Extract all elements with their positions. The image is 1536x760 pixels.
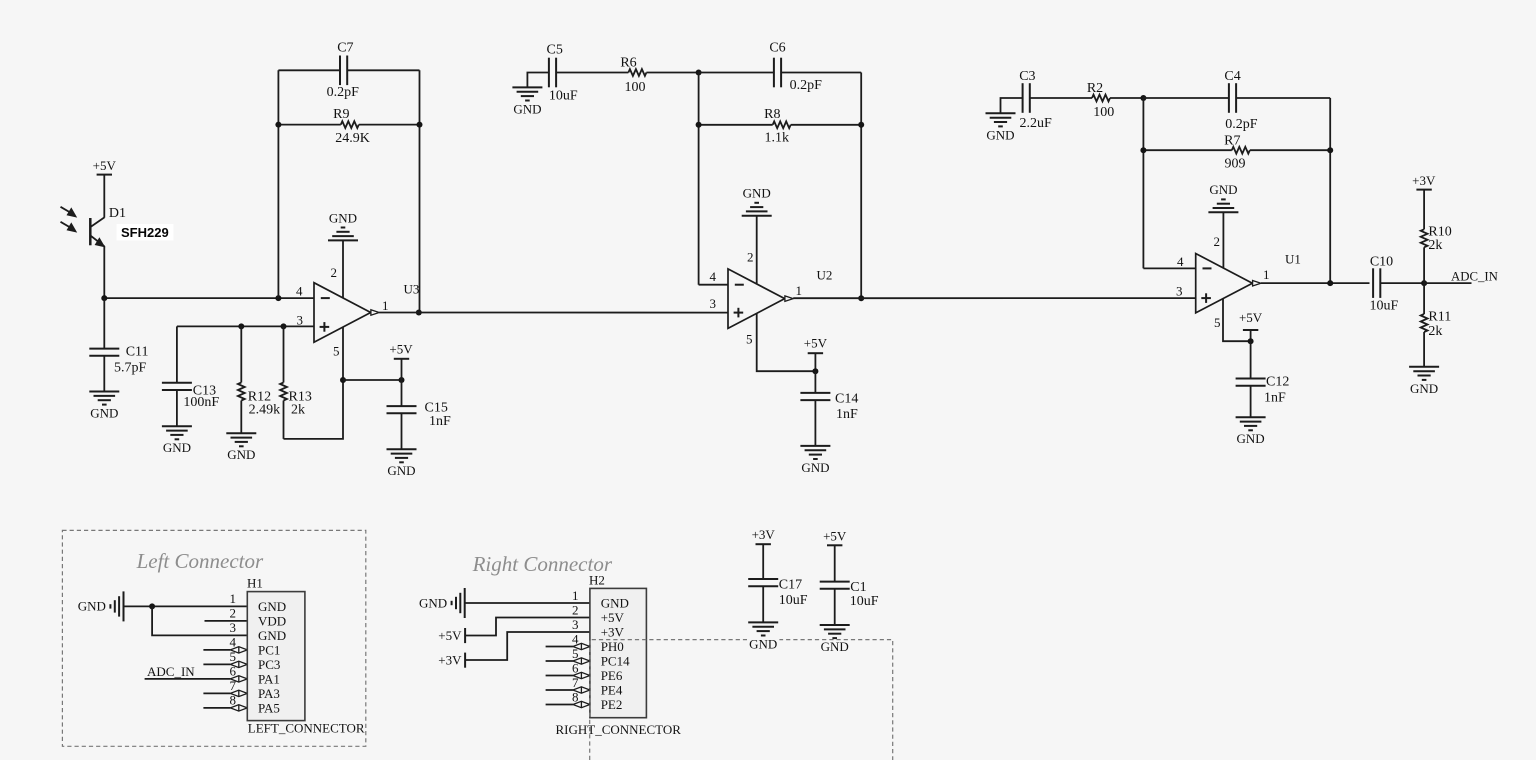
node dots on plus row [238,323,244,329]
svg-text:100: 100 [625,80,646,95]
wire pin8 [203,707,230,709]
ground above U2 pin2 [742,185,772,215]
pin6 arrow [573,672,590,679]
wire U1 output to C10 [1261,282,1370,284]
svg-text:GND: GND [601,596,629,611]
svg-text:1: 1 [230,591,237,606]
node dot C15 [399,377,405,383]
resistor R8 1.1k [699,107,862,145]
U1 pin 5 wire [1223,299,1251,342]
wire U2 output to U1 plus input [793,297,1195,299]
wire GND to pin1 [465,602,590,604]
ground below C11 [89,392,119,421]
wire C4 to right leg [1236,97,1330,99]
svg-text:1: 1 [1263,267,1270,282]
svg-text:3: 3 [572,617,579,632]
svg-text:1: 1 [382,298,389,313]
ground above U3 pin2 [328,210,358,240]
node dot R2/C4 [1140,95,1146,101]
node ADC_IN [1421,280,1427,286]
wire pin4 [203,649,230,651]
wire D1 node to U3 minus input [104,297,314,299]
svg-text:GND: GND [513,101,541,116]
+5V stub [438,628,465,643]
svg-text:10uF: 10uF [1370,299,1399,314]
svg-text:4: 4 [1177,254,1184,269]
svg-text:0.2pF: 0.2pF [790,78,823,93]
ground above U1 pin2 [1208,182,1238,212]
+5V supply for D1 [93,158,117,175]
U3 pin 5 wire [342,327,344,380]
resistor R7 909 [1143,133,1330,171]
wire left leg to minus input [699,284,728,286]
svg-text:8: 8 [230,693,237,708]
wire node to C4 [1143,97,1229,99]
wire pin2 VDD [205,620,248,622]
feedback top wire to C7 [278,69,340,71]
feedback left leg wire [277,70,279,298]
svg-text:VDD: VDD [258,613,286,628]
svg-text:+5V: +5V [438,628,462,643]
ground at C3 [986,113,1016,142]
svg-text:R6: R6 [620,55,636,70]
node dots R9 [275,122,281,128]
svg-text:PH0: PH0 [601,639,624,654]
capacitor C6 0.2pF [769,41,822,93]
wire R13 bottom to pin5 net [284,380,344,439]
svg-text:7: 7 [230,678,237,693]
svg-text:ADC_IN: ADC_IN [1451,270,1498,284]
svg-text:5: 5 [333,344,340,359]
svg-text:R2: R2 [1087,81,1103,96]
wire GND to pin2 [756,216,758,285]
wire +5V to D1 collector [103,175,105,218]
wire C5 to R6 [556,72,628,74]
svg-text:GND: GND [258,628,286,643]
+3V stub [438,652,465,667]
plus row wire C13 to U3 [177,325,314,327]
svg-text:PC3: PC3 [258,657,280,672]
svg-text:1: 1 [796,283,803,298]
op-amp U3 [314,283,379,343]
svg-text:PA3: PA3 [258,686,280,701]
H2 pin names [601,596,630,713]
wire +5V to pin2 [465,618,590,636]
pin8 arrow [230,705,247,712]
+3V supply at R10 [1412,173,1436,190]
wire pin6 [546,675,573,677]
node dot C14 [812,368,818,374]
capacitor C5 10uF [547,43,578,104]
wire GND to pin 2 [342,240,344,298]
ground below C1 [819,625,851,654]
capacitor C17 10uF [748,544,808,622]
svg-text:GND: GND [1410,381,1438,396]
wire left leg to minus input [1143,267,1195,269]
svg-text:PA5: PA5 [258,700,280,715]
wire C7 to right leg [347,69,419,71]
dashed box Left Connector [62,530,365,746]
resistor R2 100 [1087,81,1114,120]
node dot pin5 [340,377,346,383]
feedback left leg U2 [698,73,700,285]
wire GND to C3 [1001,98,1023,113]
+3V supply at C17 [752,527,776,544]
capacitor C11 [89,298,148,391]
svg-text:10uF: 10uF [779,593,808,608]
svg-text:GND: GND [329,210,357,225]
svg-text:4: 4 [230,635,237,650]
ground at H1 pin1 (rotated) [78,591,124,621]
svg-text:+5V: +5V [823,528,847,543]
svg-text:R7: R7 [1224,133,1240,148]
svg-text:PE4: PE4 [601,683,623,698]
wire pin4 [546,646,573,648]
node dot feedback/minus [275,295,281,301]
label SFH229 [117,224,174,241]
svg-text:2: 2 [230,606,237,621]
pin4 arrow [573,643,590,650]
dashed group box bottom-right [590,640,893,760]
capacitor C7 0.2pF [327,41,360,100]
svg-text:4: 4 [572,631,579,646]
ground below R12 [226,433,256,462]
resistor R10 2k [1421,190,1452,284]
svg-text:2k: 2k [1428,238,1442,253]
svg-text:100nF: 100nF [183,395,219,410]
svg-text:3: 3 [230,620,237,635]
svg-text:C4: C4 [1224,69,1240,84]
+5V supply at C1 [823,528,847,545]
wire GND to pin2 [1222,212,1224,268]
svg-text:D1: D1 [109,206,126,221]
wire pin5 [203,663,230,665]
svg-text:SFH229: SFH229 [121,225,169,240]
svg-text:GND: GND [1209,182,1237,197]
+5V supply at C15 [389,342,413,381]
svg-text:PE2: PE2 [601,697,623,712]
svg-text:C10: C10 [1370,255,1393,270]
svg-text:2.49k: 2.49k [249,403,281,418]
svg-text:C3: C3 [1019,69,1035,84]
svg-text:1.1k: 1.1k [764,130,789,145]
svg-text:R9: R9 [333,107,349,122]
feedback right leg U2 [860,73,862,299]
svg-text:10uF: 10uF [549,89,578,104]
wire pin7 [203,692,230,694]
svg-text:C14: C14 [835,391,858,406]
svg-text:2: 2 [747,249,754,264]
wire C10 to ADC node [1380,282,1424,284]
svg-text:Left Connector: Left Connector [136,549,264,573]
ground at H2 pin1 (rotated) [419,588,465,618]
svg-text:GND: GND [1237,431,1265,446]
H1 pin numbers [230,591,237,708]
svg-text:GND: GND [90,406,118,421]
op-amp U2 [728,269,793,329]
+5V supply at C12 [1239,310,1263,341]
svg-text:5: 5 [746,332,753,347]
wire pin7 [546,689,573,691]
svg-text:C17: C17 [779,578,802,593]
svg-text:RIGHT_CONNECTOR: RIGHT_CONNECTOR [556,722,682,737]
wire pin5 [546,660,573,662]
svg-text:R11: R11 [1428,309,1451,324]
node dot U1 output [1327,280,1333,286]
svg-text:10uF: 10uF [850,594,879,609]
svg-text:PC1: PC1 [258,642,280,657]
svg-text:5.7pF: 5.7pF [114,360,147,375]
node dot U3 output [416,310,422,316]
wire GND to C5 [527,73,549,88]
svg-text:U1: U1 [1285,252,1301,267]
capacitor C13 100nF [162,326,220,426]
svg-text:1nF: 1nF [1264,390,1286,405]
wire GND to pin1 [124,605,248,607]
capacitor C10 10uF [1370,255,1399,314]
ground below C13 [162,426,192,455]
svg-text:+5V: +5V [389,342,413,357]
pin5 arrow [230,661,247,668]
connector H2 body [590,588,647,717]
capacitor C1 10uF [820,545,879,625]
svg-text:100: 100 [1093,105,1114,120]
svg-text:2: 2 [572,602,579,617]
svg-text:0.2pF: 0.2pF [327,85,360,100]
svg-text:5: 5 [1214,315,1221,330]
svg-text:C7: C7 [337,41,353,56]
node dot C12 [1248,338,1254,344]
node dot H1 gnd [149,603,155,609]
svg-text:6: 6 [572,660,579,675]
capacitor C3 2.2uF [1019,69,1052,131]
svg-text:GND: GND [258,599,286,614]
svg-text:+3V: +3V [1412,173,1436,188]
svg-text:GND: GND [821,639,849,654]
node dots R8 [696,122,702,128]
svg-text:C11: C11 [126,344,149,359]
svg-text:C6: C6 [769,41,785,56]
svg-text:+3V: +3V [752,527,776,542]
svg-text:2k: 2k [291,403,305,418]
svg-text:PC14: PC14 [601,654,630,669]
svg-text:3: 3 [297,313,304,328]
transistor D1 (phototransistor SFH229) [90,217,105,298]
node dot D1/C11 [101,295,107,301]
light arrows into D1 [61,207,78,233]
svg-text:+5V: +5V [601,610,625,625]
svg-text:3: 3 [1176,284,1183,299]
pin7 arrow [573,687,590,694]
svg-text:PA1: PA1 [258,671,280,686]
feedback right leg wire [419,70,421,312]
wire R6 to node [646,72,698,74]
resistor R9 24.9K [278,107,419,146]
node dot R6/C6 [696,70,702,76]
svg-text:U2: U2 [817,267,833,282]
connector H1 body [247,592,305,721]
svg-text:C5: C5 [547,43,563,58]
ground below C15 [387,449,417,478]
svg-text:+3V: +3V [601,625,625,640]
svg-text:GND: GND [78,599,106,614]
pin7 arrow [230,690,247,697]
ground below R11 [1409,367,1439,396]
svg-text:+5V: +5V [1239,310,1263,325]
svg-text:GND: GND [227,447,255,462]
H2 pin numbers [572,588,579,705]
wire node to C6 [699,72,774,74]
svg-text:U3: U3 [404,281,420,296]
svg-text:4: 4 [710,269,717,284]
pin6 arrow [230,676,247,683]
ground below C17 [747,622,779,651]
svg-text:8: 8 [572,689,579,704]
pin8 arrow [573,701,590,708]
ground below C14 [800,446,830,475]
svg-text:+5V: +5V [804,336,828,351]
capacitor C15 1nF [387,380,452,449]
svg-text:2: 2 [331,265,338,280]
svg-text:LEFT_CONNECTOR: LEFT_CONNECTOR [248,721,365,736]
svg-text:+3V: +3V [438,652,462,667]
svg-text:4: 4 [296,284,303,299]
wire +3V to pin3 [465,632,590,660]
svg-text:R8: R8 [764,107,780,122]
capacitor C12 1nF [1236,341,1290,417]
svg-text:GND: GND [749,636,777,651]
wire U3 output to U2 plus input [379,312,728,314]
pin5 arrow [573,658,590,665]
svg-text:+5V: +5V [93,158,117,173]
ground at C5 [512,87,542,116]
svg-text:5: 5 [572,646,579,661]
svg-text:GND: GND [419,595,447,610]
resistor R13 2k [280,326,312,439]
wire C6 to right leg [781,72,861,74]
svg-text:5: 5 [230,649,237,664]
H1 pin names [258,599,286,716]
svg-text:GND: GND [743,185,771,200]
svg-text:GND: GND [801,460,829,475]
svg-text:C12: C12 [1266,375,1289,390]
svg-text:H2: H2 [589,572,605,587]
svg-text:GND: GND [163,440,191,455]
svg-text:2: 2 [1214,234,1221,249]
resistor R12 2.49k [238,326,280,433]
svg-text:PE6: PE6 [601,668,623,683]
+5V supply at C14 [804,336,828,372]
resistor R11 2k [1421,283,1452,367]
svg-text:2.2uF: 2.2uF [1020,116,1053,131]
wire R2 to node [1110,97,1143,99]
feedback left leg U1 [1142,98,1144,268]
wire pin5 node to C15 node [343,379,402,381]
ADC_IN stub wire [1424,282,1471,284]
op-amp U1 [1196,254,1261,313]
svg-text:GND: GND [387,463,415,478]
resistor R6 100 [620,55,646,95]
feedback right leg U1 [1329,98,1331,283]
svg-text:3: 3 [710,296,717,311]
svg-text:24.9K: 24.9K [335,131,370,146]
svg-text:1: 1 [572,588,579,603]
svg-text:1nF: 1nF [836,407,858,422]
svg-text:0.2pF: 0.2pF [1225,117,1258,132]
wire pin6 ADC_IN [145,678,231,680]
U2 pin 5 wire [757,313,816,371]
svg-text:6: 6 [230,664,237,679]
wire pin8 [546,704,573,706]
svg-text:ADC_IN: ADC_IN [147,664,195,679]
node dot U2 output [858,295,864,301]
svg-text:2k: 2k [1428,324,1442,339]
pin4 arrow [230,647,247,654]
svg-text:GND: GND [986,127,1014,142]
node dots R7 [1140,147,1146,153]
ground below C12 [1236,417,1266,446]
wire gnd node to pin3 [152,606,247,635]
svg-text:909: 909 [1225,156,1246,171]
svg-text:H1: H1 [247,576,263,591]
svg-text:7: 7 [572,675,579,690]
capacitor C4 0.2pF [1224,69,1257,132]
svg-text:1nF: 1nF [429,414,451,429]
capacitor C14 1nF [800,371,858,446]
wire C3 to R2 [1030,97,1092,99]
